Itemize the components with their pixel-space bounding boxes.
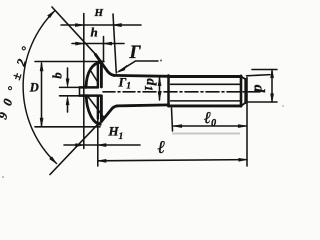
d bottom extension line bbox=[248, 101, 277, 103]
head max-diameter plane line bbox=[100, 62, 103, 122]
dome arc lower bbox=[86, 96, 100, 125]
h dimension line bbox=[72, 43, 124, 45]
l0 dimension line bbox=[174, 125, 247, 127]
upper cone extension line bbox=[52, 7, 96, 55]
l left arrowhead bbox=[98, 159, 106, 162]
H1 dimension line bbox=[64, 144, 140, 146]
H1 right arrowhead bbox=[98, 144, 106, 147]
h left arrowhead bbox=[76, 42, 84, 45]
r leader bbox=[119, 61, 158, 71]
lower cone extension line bbox=[50, 123, 100, 175]
svg-text:d: d bbox=[251, 85, 267, 93]
l0 right arrowhead bbox=[238, 125, 246, 128]
chamfer line bbox=[244, 79, 246, 103]
l left extension line bbox=[97, 119, 99, 167]
slot bottom plane line bbox=[97, 64, 100, 119]
D dimension line bbox=[41, 63, 43, 126]
d dimension line bbox=[271, 70, 273, 103]
screw end face bbox=[240, 76, 243, 106]
D top extension line bbox=[35, 61, 104, 63]
shank top edge bbox=[114, 74, 169, 78]
H right arrowhead bbox=[113, 23, 122, 26]
D bottom arrowhead bbox=[40, 118, 43, 127]
l dimension line bbox=[98, 160, 247, 161]
slot bottom line bbox=[80, 94, 102, 97]
l right arrowhead bbox=[239, 158, 247, 161]
thread minor bottom line bbox=[171, 100, 241, 102]
b bottom arrowhead bbox=[66, 97, 69, 105]
scan smudge bbox=[172, 133, 240, 135]
l0 left extension line bbox=[172, 108, 173, 131]
arc bottom arrowhead bbox=[50, 157, 57, 164]
chamfer bottom diagonal bbox=[241, 103, 246, 106]
d1 bottom arrowhead bbox=[158, 92, 161, 100]
chamfer top diagonal bbox=[241, 77, 246, 80]
D top arrowhead bbox=[40, 63, 43, 72]
arc top arrowhead bbox=[48, 11, 55, 18]
slot top line bbox=[80, 86, 98, 89]
paper speck bbox=[2, 176, 4, 178]
thread minor top line bbox=[171, 83, 241, 85]
D bottom extension line bbox=[35, 126, 100, 128]
b dimension line lower bbox=[67, 105, 69, 113]
svg-text:ℓ0: ℓ0 bbox=[204, 108, 216, 129]
svg-text:b: b bbox=[51, 72, 65, 78]
svg-text:d1: d1 bbox=[142, 78, 158, 91]
thread start line bbox=[167, 75, 170, 106]
slot left closure bbox=[79, 87, 81, 95]
d bottom arrowhead bbox=[271, 94, 274, 102]
paper speck bbox=[282, 105, 283, 106]
svg-text:h: h bbox=[91, 25, 98, 40]
r leader arrowhead bbox=[117, 66, 126, 73]
extension line head end bbox=[113, 14, 116, 73]
d top arrowhead bbox=[271, 70, 274, 78]
centerline bbox=[103, 91, 260, 93]
slot 45deg convention line bbox=[88, 96, 104, 117]
thread top edge bbox=[169, 75, 242, 78]
H dimension line bbox=[61, 24, 141, 26]
h right arrowhead bbox=[104, 42, 112, 45]
b top extension line bbox=[60, 86, 81, 88]
svg-text:H1: H1 bbox=[108, 124, 124, 142]
H1 left arrowhead bbox=[76, 144, 84, 147]
b top arrowhead bbox=[66, 79, 69, 87]
d1 top arrowhead bbox=[158, 78, 161, 86]
d top extension line bbox=[247, 75, 271, 76]
paper speck bbox=[160, 60, 162, 62]
H left arrowhead bbox=[75, 24, 84, 27]
svg-text:D: D bbox=[29, 81, 39, 95]
extension line h right bbox=[103, 37, 105, 62]
svg-text:ℓ: ℓ bbox=[158, 137, 166, 157]
dome arc upper bbox=[86, 62, 101, 87]
svg-text:Γ: Γ bbox=[129, 43, 142, 63]
d1 dimension line bbox=[159, 78, 161, 101]
upper cone edge bbox=[96, 55, 115, 76]
b bottom extension line bbox=[60, 95, 81, 97]
slot 45deg convention line upper bbox=[91, 71, 99, 83]
thread bottom edge bbox=[169, 104, 242, 107]
angle arc 90deg bbox=[23, 11, 56, 164]
extension line apex plane bbox=[83, 14, 85, 149]
svg-text:H: H bbox=[94, 7, 104, 19]
l0 left arrowhead bbox=[174, 125, 182, 128]
svg-text:90°±2°: 90°±2° bbox=[0, 37, 36, 121]
shank bottom edge bbox=[117, 105, 169, 106]
lower cone edge bbox=[101, 106, 117, 122]
right extension line bbox=[246, 78, 248, 167]
b dimension line upper bbox=[67, 68, 69, 79]
